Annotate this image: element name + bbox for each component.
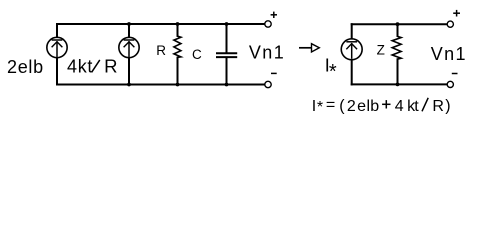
wire resistor R bottom: [177, 58, 179, 85]
junction node: capacitor C top: [225, 22, 229, 26]
current source I1 (2elb): [47, 37, 67, 57]
wire source2 bottom: [128, 58, 130, 84]
arrow between circuits: [299, 44, 319, 52]
minus sign right: [452, 73, 458, 75]
wire source2 top: [128, 24, 130, 37]
svg-text:): ): [445, 98, 450, 115]
junction node: impedance Z top: [396, 22, 400, 26]
svg-text:4: 4: [395, 98, 404, 115]
wire capacitor C top: [226, 24, 228, 53]
wire source I* top: [351, 24, 353, 38]
svg-text:C: C: [192, 47, 202, 62]
svg-text:Vn1: Vn1: [431, 44, 467, 64]
terminal - output right: [447, 81, 453, 87]
svg-text:R: R: [156, 43, 166, 58]
wire impedance Z bottom: [397, 59, 399, 84]
junction node: resistor R top: [176, 22, 180, 26]
wire bottom rail left circuit: [57, 84, 265, 86]
formula I*=(2elb+4kt/R): [312, 97, 451, 117]
svg-text:Vn1: Vn1: [249, 43, 285, 63]
wire source1 top: [56, 24, 58, 37]
wire capacitor C bottom: [226, 58, 228, 85]
resistor R zigzag: [174, 36, 181, 57]
svg-text:2e: 2e: [347, 98, 367, 115]
junction node: capacitor C bottom: [225, 83, 229, 87]
svg-text:R: R: [432, 98, 444, 115]
junction node: resistor R bottom: [176, 83, 180, 87]
svg-text:(: (: [339, 98, 345, 115]
minus sign left: [271, 72, 277, 74]
junction node: source2 bottom: [127, 83, 131, 87]
label I* right source: [325, 56, 337, 84]
wire source I* bottom: [351, 61, 353, 85]
wire bottom rail right circuit: [352, 83, 448, 85]
svg-text:*: *: [329, 61, 337, 83]
terminal - output left: [265, 81, 271, 87]
label 4kt/R: [67, 57, 118, 77]
current source I2 (4kt/R): [119, 37, 139, 57]
current source I*: [341, 39, 362, 60]
terminal + output right: [447, 21, 453, 27]
plus sign left: [271, 12, 277, 18]
svg-text:4kt: 4kt: [67, 57, 93, 77]
wire impedance Z top: [397, 24, 399, 36]
wire source1 bottom: [56, 58, 58, 84]
junction node: impedance Z bottom: [396, 83, 400, 87]
wire top rail left circuit: [57, 23, 265, 25]
svg-text:Z: Z: [377, 43, 385, 58]
svg-text:t: t: [414, 98, 419, 115]
svg-text:2elb: 2elb: [7, 57, 44, 77]
svg-text:I: I: [312, 98, 316, 115]
svg-text:=: =: [326, 97, 335, 114]
svg-text:R: R: [104, 57, 117, 77]
svg-text:*: *: [317, 99, 323, 116]
terminal + output left (Vn1 +): [265, 21, 271, 27]
junction node: source2 top: [127, 22, 131, 26]
wire top rail right circuit: [352, 23, 448, 25]
svg-text:b: b: [370, 98, 379, 115]
capacitor C plates: [217, 53, 236, 57]
plus sign right: [453, 10, 460, 17]
wire resistor R top: [177, 24, 179, 36]
impedance Z zigzag: [392, 36, 401, 59]
